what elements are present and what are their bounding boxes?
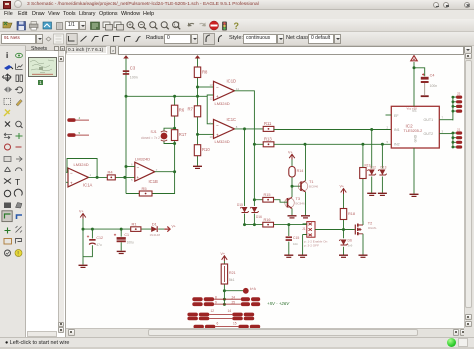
ground under T3 — [288, 216, 297, 218]
node junction C1 tap — [120, 228, 123, 231]
wire R19 T2 drain chain — [362, 144, 364, 221]
coordinate display — [66, 46, 107, 54]
board jumper bars row5 — [194, 321, 261, 328]
resistor R14 — [289, 167, 303, 178]
net arrow V+ out — [164, 225, 175, 232]
node junction R17 SJ1 bottom — [173, 142, 176, 145]
svg-text:10: 10 — [210, 135, 214, 139]
svg-text:R10: R10 — [202, 147, 210, 152]
svg-text:2: 2 — [66, 168, 67, 172]
node junction IC1B minus — [125, 165, 128, 168]
svg-text:−: − — [137, 165, 140, 170]
wire IC1D output to R13 row — [235, 91, 255, 225]
ground under T2 — [359, 255, 368, 257]
node junction bars row2 — [223, 303, 226, 306]
svg-text:6: 6 — [131, 163, 133, 167]
svg-text:R6: R6 — [179, 108, 185, 113]
svg-text:LM324D: LM324D — [215, 139, 230, 144]
wire V+ rail R8 chain — [197, 56, 199, 166]
svg-text:13: 13 — [210, 83, 214, 87]
resistor R10 — [194, 145, 210, 156]
svg-text:10n: 10n — [293, 242, 298, 246]
svg-text:T: T — [15, 177, 20, 187]
node junction R15 tap — [253, 198, 256, 201]
svg-text:12: 12 — [210, 97, 214, 101]
svg-text:R21: R21 — [229, 271, 236, 275]
op-amp IC1C — [210, 117, 238, 144]
svg-text:IC1C: IC1C — [227, 117, 237, 122]
node junction VS C4 — [413, 66, 416, 69]
svg-text:R18: R18 — [348, 212, 355, 216]
board jumper bars row4 — [187, 317, 254, 321]
svg-text:3: 3 — [442, 129, 444, 133]
svg-text:D15: D15 — [237, 203, 243, 207]
wire IC2 EF stub — [386, 114, 392, 116]
svg-text:+5V - +26V: +5V - +26V — [267, 301, 290, 306]
capacitor C12 — [87, 235, 103, 247]
resistor R16 — [263, 218, 274, 227]
wire D13 branch — [381, 144, 383, 193]
svg-text:LM324D: LM324D — [215, 101, 230, 106]
ground under D6 — [339, 255, 348, 257]
resistor R6 — [171, 105, 184, 116]
node junctions connector bottom — [452, 132, 455, 149]
svg-text:1N4148: 1N4148 — [150, 233, 161, 237]
svg-text:p: 3-2 OFF: p: 3-2 OFF — [304, 244, 319, 248]
svg-text:GND: GND — [414, 134, 418, 142]
svg-text:6: 6 — [217, 321, 219, 325]
supply V+ arrow R21 — [221, 252, 228, 261]
wire V+ bus lower left — [83, 219, 164, 265]
svg-text:D16: D16 — [256, 215, 262, 219]
svg-text:C12: C12 — [96, 236, 103, 240]
svg-text:4: 4 — [79, 116, 81, 120]
svg-text:D6: D6 — [348, 239, 352, 243]
svg-text:R8: R8 — [202, 70, 208, 75]
ground under R10 — [193, 166, 202, 168]
ground under D13 — [378, 193, 387, 195]
node junction bus D15 — [243, 223, 246, 226]
node junction R21 pad — [223, 289, 226, 292]
node junction IC1A out — [96, 176, 99, 179]
svg-text:+: + — [216, 132, 219, 137]
wire OUT2 — [439, 133, 453, 135]
svg-text:9: 9 — [215, 301, 217, 305]
resistor R21 — [221, 264, 235, 284]
wire D12 branch — [371, 130, 373, 193]
svg-text:D12: D12 — [370, 165, 376, 169]
svg-text:47u: 47u — [96, 243, 102, 247]
resistor R5 — [139, 186, 152, 196]
svg-text:R19: R19 — [365, 163, 371, 167]
wire R21 chain — [224, 261, 243, 304]
ground under C4 — [421, 95, 429, 97]
svg-text:IC1D: IC1D — [227, 79, 237, 84]
node junction IC1B out — [173, 170, 176, 173]
svg-text:100n: 100n — [130, 76, 138, 80]
node junction R7 R10 — [196, 133, 199, 136]
svg-text:BC846: BC846 — [309, 184, 319, 188]
svg-text:5k1: 5k1 — [229, 278, 235, 282]
jumper note text — [304, 240, 328, 248]
transistor T2 mosfet — [355, 222, 377, 236]
svg-text:R14: R14 — [297, 169, 304, 173]
svg-text:3v9: 3v9 — [348, 243, 353, 247]
wire R13 row to IC2 IN2 — [254, 143, 391, 145]
resistor R19 — [360, 163, 371, 178]
zener diode D15 — [237, 203, 249, 213]
wire IC1A feedback — [65, 159, 97, 183]
wire R11 row to IC2 IN1 — [274, 128, 391, 131]
svg-text:C15: C15 — [293, 236, 299, 240]
node junction bus C15 — [287, 223, 290, 226]
svg-text:8: 8 — [215, 296, 217, 300]
capacitor C3 — [123, 66, 138, 80]
svg-text:R1: R1 — [132, 221, 138, 226]
svg-text:+: + — [216, 94, 219, 99]
resistor R15 — [263, 193, 274, 202]
resistor R13 — [263, 136, 274, 146]
wire IC2 GND down — [413, 148, 415, 194]
wire bus y225 — [245, 225, 307, 255]
wire connector bus bottom — [453, 132, 456, 149]
svg-text:R4: R4 — [108, 170, 114, 175]
wire T1 collector emitter — [305, 144, 307, 215]
svg-text:C4: C4 — [430, 73, 435, 77]
svg-text:BC846: BC846 — [296, 201, 306, 205]
resistor R7 — [188, 106, 201, 117]
wire connector bus top — [453, 96, 456, 120]
svg-text:3: 3 — [66, 183, 67, 187]
ground under JP1 — [298, 255, 307, 257]
wire IC1C output to R11 — [235, 128, 264, 130]
wire OUT1 — [439, 119, 453, 121]
svg-text:5: 5 — [131, 178, 133, 182]
board jumper bars row1 — [192, 296, 260, 302]
svg-text:IN2: IN2 — [394, 143, 400, 147]
svg-text:TLE5205-2: TLE5205-2 — [404, 129, 423, 133]
transistor T1 — [298, 180, 318, 192]
node junction bus x197 — [196, 95, 199, 98]
svg-text:100u: 100u — [127, 240, 134, 244]
node junction V+ rail — [82, 228, 85, 231]
supply V+ arrow top mid — [195, 55, 201, 58]
svg-text:C3: C3 — [130, 66, 136, 71]
svg-text:R7: R7 — [188, 107, 194, 112]
svg-text:V+: V+ — [172, 225, 176, 229]
wire IC1C minus input — [198, 133, 214, 135]
node junction R13 left — [253, 143, 256, 146]
wire IC1B minus stub — [126, 166, 135, 168]
wire bus y96 — [126, 95, 214, 124]
svg-text:R5: R5 — [142, 186, 148, 191]
wire SJ1 branch — [164, 128, 175, 143]
svg-text:LM324D: LM324D — [135, 157, 150, 162]
svg-text:OUT2: OUT2 — [424, 132, 434, 136]
wire R18 chain — [343, 194, 345, 255]
svg-text:+: + — [137, 175, 140, 180]
svg-text:25: 25 — [457, 92, 461, 96]
resistor R4 — [107, 170, 115, 180]
resistor R8 — [194, 67, 208, 78]
supply V+ arrow lower left — [79, 210, 86, 219]
supply VCC arrow — [411, 56, 417, 61]
wire JP1 pins — [303, 224, 355, 255]
jumper header JP1 — [302, 222, 315, 238]
svg-text:24: 24 — [232, 296, 236, 300]
svg-text:−: − — [216, 123, 219, 128]
svg-text:5: 5 — [387, 140, 389, 144]
wire R14 chain — [292, 160, 301, 198]
svg-text:8: 8 — [236, 125, 238, 129]
pinhead JP pin 5 — [67, 131, 89, 137]
svg-text:IC1B: IC1B — [149, 179, 159, 184]
node junction R6 SJ1 — [173, 127, 176, 130]
IC U2 TLE5205-2 box — [387, 106, 444, 148]
svg-text:R16: R16 — [264, 218, 271, 222]
svg-text:?: ? — [234, 21, 240, 31]
wire T2 drain source — [362, 221, 364, 254]
ground under C15 — [284, 255, 293, 257]
test pad +24V — [243, 287, 257, 294]
svg-text:R13: R13 — [264, 136, 272, 141]
zener diode D12 — [367, 165, 376, 175]
svg-text:5: 5 — [79, 131, 81, 135]
capacitor C15 — [286, 236, 300, 246]
wire R6 chain — [174, 96, 176, 171]
ground under C1 — [117, 251, 126, 253]
connector SV1 pads top — [456, 92, 462, 113]
zener diode D13 — [378, 165, 387, 175]
node junction bus D16 — [253, 223, 256, 226]
pinhead JP pin 4 — [67, 116, 89, 122]
svg-text:100n: 100n — [430, 84, 438, 88]
op-amp IC1B — [131, 157, 158, 184]
wire R15 row — [254, 200, 287, 203]
svg-text:14: 14 — [228, 309, 232, 313]
svg-text:k+A: k+A — [250, 287, 257, 291]
node junction IC1C out — [243, 127, 246, 130]
svg-text:IRLML: IRLML — [368, 226, 377, 230]
svg-text:R15: R15 — [264, 193, 271, 197]
connector SV2 pads bottom — [456, 127, 462, 148]
svg-text:V+: V+ — [79, 210, 84, 214]
node junction C12 tap — [91, 228, 94, 231]
node junction bars row1 — [223, 298, 226, 301]
wire IC1D minus input — [198, 86, 214, 88]
op-amp IC1A — [65, 162, 93, 187]
svg-text:14: 14 — [236, 87, 240, 91]
svg-text:21: 21 — [457, 127, 461, 131]
node junction C3 bus — [125, 95, 128, 98]
board jumper bars row3 — [187, 309, 254, 316]
wire branch x244 down — [244, 129, 246, 225]
svg-text:R17: R17 — [179, 132, 187, 137]
svg-text:closed = 7x 2: closed = 7x 2 — [141, 136, 160, 140]
node junction IN2 branch R19 — [361, 143, 364, 146]
diode D1 — [150, 221, 161, 236]
zener diode D16 — [250, 207, 262, 219]
svg-text:IC2: IC2 — [406, 123, 414, 128]
node junction R8 out — [196, 86, 199, 89]
svg-text:C1: C1 — [124, 233, 129, 237]
svg-text:V+: V+ — [340, 185, 345, 189]
svg-text:V+: V+ — [288, 150, 293, 154]
svg-text:25: 25 — [232, 301, 236, 305]
node junction IN2 branch D13 — [381, 143, 384, 146]
resistor R18 — [340, 209, 355, 220]
svg-text:15: 15 — [233, 321, 237, 325]
solder jumper SJ1 — [141, 130, 167, 141]
sheet thumbnail — [28, 57, 57, 77]
wire T3 emitter — [291, 209, 293, 216]
svg-text:2: 2 — [387, 125, 389, 129]
resistor R17 — [171, 130, 187, 141]
wire IC2 VS supply — [414, 62, 425, 106]
node junction R14 T1 base — [291, 185, 294, 188]
supply V+ arrow R18 — [340, 185, 347, 194]
capacitor C4 — [421, 73, 437, 95]
transistor T3 — [285, 197, 305, 209]
svg-text:R11: R11 — [264, 121, 272, 126]
svg-text:IC1A: IC1A — [83, 183, 93, 188]
node junctions connector top — [452, 96, 455, 113]
svg-text:D13: D13 — [381, 165, 387, 169]
svg-text:OUT1: OUT1 — [424, 118, 434, 122]
board jumper bars row2 — [192, 301, 260, 307]
ground under V+ rail — [79, 265, 88, 267]
svg-text:D1: D1 — [152, 221, 158, 226]
ground under T1 — [301, 216, 310, 218]
svg-text:7: 7 — [156, 168, 158, 172]
svg-text:J1: J1 — [302, 227, 306, 231]
svg-text:V+: V+ — [221, 252, 226, 256]
wire IC1B feedback R5 — [126, 172, 175, 194]
supply V+ arrow top left — [123, 55, 129, 58]
wire V+ rail to C3 and IC1B input chain — [125, 56, 127, 194]
supply V+ arrow R14 — [288, 150, 295, 159]
op-amp IC1D — [210, 79, 240, 106]
svg-text:+: + — [70, 181, 73, 186]
wire IC1A output row — [89, 176, 135, 178]
resistor R11 — [263, 121, 274, 131]
svg-text:EF: EF — [394, 114, 399, 118]
resistor R1 — [131, 221, 141, 231]
ground under IC2 — [410, 194, 419, 196]
node junction IN1 branch — [370, 128, 373, 131]
zener diode D6 — [339, 239, 352, 248]
svg-text:i: i — [6, 51, 8, 60]
ground under D12 — [367, 193, 376, 195]
capacitor C1 — [114, 233, 134, 245]
svg-text:IN1: IN1 — [394, 128, 400, 132]
node junction gate row — [342, 228, 345, 231]
node junction T1 collector — [304, 143, 307, 146]
svg-text:−: − — [216, 85, 219, 90]
svg-text:SJ1: SJ1 — [151, 130, 157, 134]
svg-text:Vcc +5V: Vcc +5V — [407, 107, 418, 111]
node junction bus R6 — [173, 95, 176, 98]
svg-text:12: 12 — [211, 309, 215, 313]
svg-text:−: − — [70, 171, 73, 176]
svg-text:7: 7 — [442, 116, 444, 120]
svg-text:LM324D: LM324D — [74, 162, 89, 167]
node junction R4 right — [123, 176, 126, 179]
svg-text:1: 1 — [90, 173, 92, 177]
